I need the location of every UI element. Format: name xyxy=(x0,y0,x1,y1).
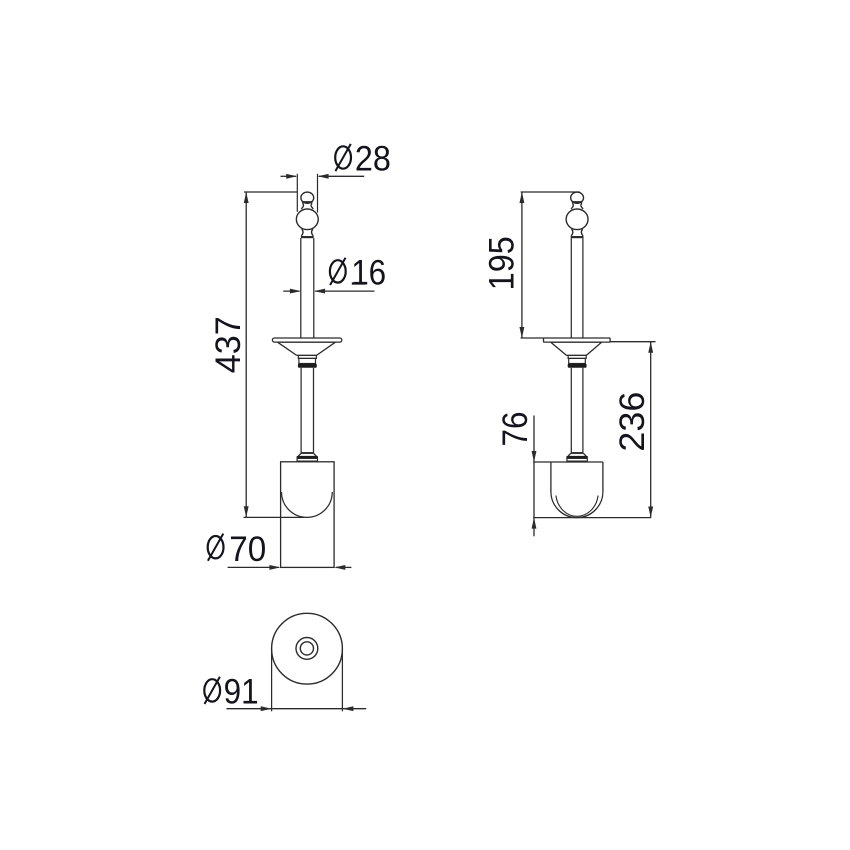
svg-text:437: 437 xyxy=(209,316,248,373)
svg-text:236: 236 xyxy=(613,392,652,452)
svg-text:70: 70 xyxy=(229,530,266,569)
svg-text:28: 28 xyxy=(355,139,391,178)
svg-text:91: 91 xyxy=(224,672,259,711)
svg-text:195: 195 xyxy=(482,236,521,290)
svg-text:76: 76 xyxy=(496,412,535,447)
svg-text:16: 16 xyxy=(351,254,386,293)
